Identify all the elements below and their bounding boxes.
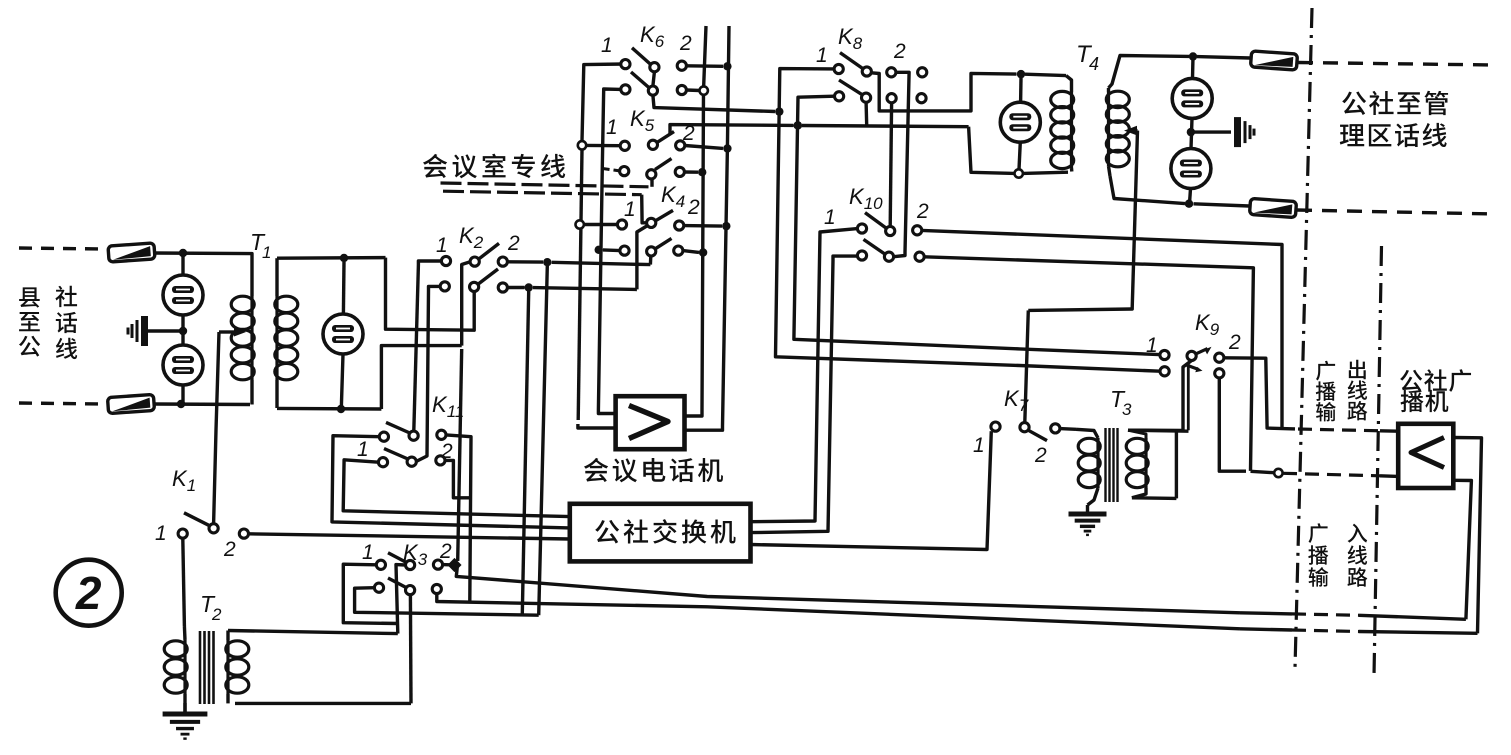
- wire: [1132, 496, 1177, 500]
- label 出线路: [1347, 360, 1367, 421]
- node junction: [177, 400, 185, 408]
- wire: [381, 346, 461, 409]
- transformer T2 core: [200, 631, 214, 704]
- node junction: [723, 62, 731, 70]
- svg-text:1: 1: [816, 44, 828, 67]
- wire: [539, 262, 548, 615]
- node junction: [794, 121, 802, 129]
- node junction: [1274, 469, 1282, 477]
- node junction: [576, 220, 584, 228]
- node junction: [543, 258, 551, 266]
- wire: [1283, 473, 1380, 476]
- label K5: [630, 106, 655, 135]
- ground: [1234, 117, 1254, 147]
- label K7: [1004, 386, 1029, 415]
- wire: [685, 146, 723, 149]
- node junction: [595, 246, 603, 254]
- node junction: [775, 107, 783, 115]
- wire: [249, 534, 570, 539]
- wire: [416, 290, 428, 461]
- svg-text:2: 2: [223, 538, 236, 561]
- node junction: [794, 121, 802, 129]
- wire: [670, 125, 794, 135]
- wire: [153, 251, 250, 255]
- svg-text:2: 2: [75, 567, 102, 619]
- ground: [163, 714, 208, 739]
- wire: [1359, 615, 1466, 619]
- svg-text:1: 1: [824, 206, 836, 229]
- wire: [684, 224, 722, 228]
- wire: [1191, 57, 1195, 79]
- wire: [683, 251, 699, 253]
- wire: [686, 64, 723, 68]
- wire: [1292, 630, 1359, 632]
- switch K11 pole1: [379, 422, 446, 441]
- transformer T2 primary: [164, 626, 187, 712]
- wire: [277, 256, 386, 260]
- wire: [1240, 613, 1292, 614]
- wire: [1297, 210, 1495, 214]
- svg-text:2: 2: [893, 40, 906, 63]
- wire: [794, 96, 1159, 354]
- switch K7: [1020, 423, 1060, 441]
- wire: [653, 95, 775, 111]
- wire: [637, 226, 647, 289]
- svg-text:1: 1: [606, 116, 618, 139]
- node junction: [1017, 70, 1025, 78]
- switch K2 pole2: [440, 269, 507, 292]
- label 广播输 (out): [1316, 361, 1336, 422]
- transformer T1 secondary: [275, 258, 298, 408]
- node junction: [698, 168, 706, 176]
- transformer T3 secondary: [1126, 430, 1188, 498]
- wire: [414, 265, 419, 431]
- label 公社广播机: [1400, 369, 1471, 412]
- label 广播输 (in): [1308, 523, 1328, 587]
- wire: [446, 435, 471, 602]
- wire: [181, 385, 184, 404]
- wire: [1028, 308, 1132, 310]
- node junction: [700, 86, 708, 94]
- wire: [650, 179, 653, 187]
- box commune broadcast unit: [1398, 424, 1453, 488]
- label T4: [1076, 41, 1099, 74]
- wire: [924, 257, 1253, 471]
- wire: [19, 403, 105, 404]
- wire: [1219, 378, 1246, 471]
- label 2: [223, 538, 236, 561]
- arrester E6: [1171, 149, 1211, 189]
- wire: [751, 229, 858, 522]
- svg-text:4: 4: [1089, 54, 1099, 74]
- label 2: [916, 200, 929, 223]
- wire: [1190, 188, 1191, 203]
- wire: [235, 702, 411, 705]
- switch K2 pole1: [441, 243, 507, 266]
- bus line: [685, 26, 730, 430]
- arrester E4: [1000, 102, 1040, 142]
- wire: [341, 354, 343, 409]
- wire: [1380, 429, 1398, 433]
- wire: [751, 256, 858, 532]
- wire: [443, 191, 642, 195]
- wire: [343, 564, 398, 623]
- svg-text:1: 1: [155, 522, 167, 545]
- label 公社交换机: [595, 519, 735, 543]
- node junction: [1187, 128, 1195, 136]
- switch K11 pole2: [378, 449, 445, 467]
- fuse F4: [1249, 198, 1296, 217]
- label 2: [1228, 331, 1241, 354]
- wire: [642, 195, 647, 223]
- wire: [552, 262, 651, 264]
- wire: [1197, 57, 1250, 58]
- label 公社至管理区话线: [1340, 91, 1448, 147]
- transformer T1 tap: [219, 328, 246, 337]
- wire: [1086, 505, 1089, 512]
- wire: [183, 703, 186, 712]
- node junction: [447, 558, 461, 572]
- wire: [653, 72, 655, 86]
- switch K1: [178, 513, 248, 538]
- wire: [1251, 471, 1275, 472]
- node junction: [1185, 200, 1193, 208]
- node junction: [723, 144, 731, 152]
- wire: [1187, 364, 1190, 430]
- label 1: [436, 234, 448, 257]
- label 2: [440, 440, 453, 463]
- label 1: [357, 438, 369, 461]
- label 2: [687, 196, 700, 219]
- label 1: [624, 198, 636, 221]
- node junction: [1015, 169, 1023, 177]
- wire: [418, 261, 441, 265]
- switch K3 pole2: [374, 578, 441, 595]
- wire: [586, 144, 620, 148]
- zone boundary: [1295, 8, 1312, 668]
- label K2: [459, 223, 484, 252]
- label K10: [849, 184, 883, 213]
- node junction: [179, 327, 187, 335]
- wire: [1019, 78, 1023, 103]
- transformer T4 tap: [1124, 126, 1138, 136]
- label T3: [1110, 386, 1132, 419]
- svg-text:1: 1: [262, 243, 271, 262]
- zone boundary: [1374, 246, 1382, 676]
- wire: [1292, 614, 1359, 615]
- wire: [603, 248, 620, 252]
- wire: [355, 588, 539, 616]
- wire: [969, 127, 1015, 174]
- label 1: [973, 434, 985, 457]
- wire: [181, 315, 184, 345]
- arrester E2: [163, 345, 203, 385]
- transformer T1 primary: [231, 254, 254, 405]
- transformer T2 secondary: [226, 631, 249, 704]
- wire: [578, 150, 582, 421]
- label 2: [893, 40, 906, 63]
- svg-text:3: 3: [1122, 400, 1132, 419]
- label K8: [838, 24, 863, 53]
- svg-text:1: 1: [624, 198, 636, 221]
- wire: [409, 595, 413, 704]
- svg-text:2: 2: [1034, 444, 1047, 467]
- wire: [214, 332, 219, 524]
- wire: [1453, 438, 1481, 634]
- wire: [1240, 629, 1292, 630]
- switch K5 pole2: [620, 159, 685, 179]
- wire: [181, 253, 184, 275]
- wire: [386, 258, 475, 331]
- wire: [343, 460, 570, 517]
- label 1: [362, 541, 374, 564]
- wire: [582, 64, 625, 141]
- switch K3 pole1: [376, 553, 442, 570]
- switch K8 pole2: [835, 80, 927, 103]
- node junction: [340, 254, 348, 262]
- wire: [228, 631, 398, 634]
- wire: [890, 103, 891, 227]
- switch K8 pole1: [834, 53, 927, 77]
- svg-text:1: 1: [362, 541, 374, 564]
- arrester E5: [1172, 78, 1212, 118]
- label K9: [1195, 310, 1220, 339]
- wire: [443, 563, 450, 567]
- svg-text:1: 1: [973, 434, 985, 457]
- wire: [871, 73, 1016, 111]
- label K3: [403, 540, 428, 569]
- wire: [584, 223, 618, 226]
- wire: [578, 424, 616, 428]
- fuse F1: [108, 243, 155, 262]
- wire: [1025, 310, 1029, 422]
- wire: [1224, 358, 1295, 429]
- fuse F3: [1250, 51, 1297, 70]
- wire: [922, 230, 1282, 427]
- label 县至公社话线: [19, 286, 77, 359]
- box commune switchboard: [570, 504, 751, 562]
- svg-text:1: 1: [436, 234, 448, 257]
- wire: [1191, 130, 1231, 133]
- wire: [183, 538, 185, 626]
- node junction: [337, 405, 345, 413]
- wire: [1023, 172, 1068, 173]
- wire: [445, 460, 471, 497]
- label 1: [824, 206, 836, 229]
- wire: [802, 126, 969, 127]
- label 2: [682, 122, 695, 145]
- wire: [277, 407, 381, 411]
- wire: [1132, 131, 1137, 308]
- transformer T3 core: [1106, 428, 1118, 502]
- bus line: [685, 26, 707, 416]
- wire: [1359, 632, 1478, 634]
- node junction: [1189, 52, 1197, 60]
- wire: [507, 286, 524, 289]
- label 会议电话机: [584, 458, 723, 482]
- wire: [1453, 480, 1471, 619]
- figure number 2: [56, 560, 122, 626]
- svg-text:2: 2: [507, 232, 520, 255]
- switch K10 pole2: [857, 239, 924, 261]
- svg-text:2: 2: [1228, 331, 1241, 354]
- wire: [1128, 361, 1192, 431]
- switch K9: [1160, 347, 1224, 378]
- label 入线路: [1347, 524, 1367, 587]
- svg-text:2: 2: [916, 200, 929, 223]
- svg-text:1: 1: [1146, 334, 1158, 357]
- wire: [649, 256, 653, 265]
- wire: [864, 102, 868, 125]
- wire: [1019, 142, 1020, 170]
- label 2: [439, 540, 452, 563]
- label K1: [172, 466, 196, 495]
- switch K10 pole1: [857, 213, 921, 236]
- wire: [148, 329, 183, 332]
- wire: [441, 183, 649, 187]
- wire: [437, 594, 1240, 629]
- wire: [19, 248, 107, 249]
- wire: [1194, 204, 1250, 206]
- label 1: [601, 34, 613, 57]
- box conference telephone: [616, 396, 685, 449]
- wire: [598, 89, 621, 414]
- svg-text:1: 1: [357, 438, 369, 461]
- wire: [522, 291, 528, 614]
- wire: [1109, 56, 1190, 89]
- label T2: [200, 591, 222, 624]
- wire: [1110, 176, 1185, 204]
- switch K4 pole1: [617, 210, 683, 230]
- wire: [332, 436, 570, 528]
- wire: [1380, 474, 1398, 478]
- arrester E1: [163, 275, 203, 315]
- wire: [1025, 74, 1066, 75]
- label 2: [1034, 444, 1047, 467]
- wire: [342, 262, 346, 314]
- wire: [603, 169, 620, 171]
- node junction: [525, 283, 533, 291]
- wire: [686, 88, 699, 92]
- label 会议室专线: [423, 154, 565, 179]
- node junction: [179, 249, 187, 257]
- wire: [1298, 429, 1380, 431]
- fuse F2: [107, 394, 154, 413]
- label 1: [816, 44, 828, 67]
- node junction: [699, 248, 707, 256]
- label 1: [155, 522, 167, 545]
- label 2: [507, 232, 520, 255]
- label K11: [432, 392, 464, 421]
- svg-text:1: 1: [601, 34, 613, 57]
- wire: [458, 349, 462, 561]
- label 2: [679, 32, 692, 55]
- switch K6 pole2: [621, 72, 687, 95]
- node junction: [578, 141, 586, 149]
- switch K6 pole1: [621, 48, 687, 72]
- label T1: [250, 229, 271, 262]
- wire: [1298, 63, 1495, 66]
- ground: [128, 316, 148, 346]
- label K6: [640, 22, 665, 51]
- transformer T4 primary: [1051, 76, 1074, 172]
- node junction: [722, 222, 730, 230]
- switch K4 pole2: [620, 238, 683, 256]
- label 1: [606, 116, 618, 139]
- wire: [751, 431, 992, 549]
- label K4: [661, 182, 685, 211]
- transformer T4 secondary: [1106, 88, 1129, 176]
- wire: [533, 288, 637, 290]
- ground: [1069, 514, 1107, 535]
- wire: [507, 260, 543, 264]
- wire: [1191, 118, 1192, 148]
- wire: [684, 170, 698, 174]
- node terminal 1: [991, 422, 1000, 431]
- wire: [153, 402, 250, 406]
- arrester E3: [323, 314, 363, 354]
- wire: [776, 69, 1161, 372]
- wire: [894, 72, 909, 256]
- wire: [456, 565, 1240, 613]
- svg-text:2: 2: [211, 605, 222, 624]
- transformer T3 primary: [1076, 429, 1100, 505]
- svg-text:2: 2: [687, 196, 700, 219]
- switch K5 pole1: [620, 132, 685, 151]
- wire: [396, 565, 406, 634]
- wire: [1060, 427, 1076, 431]
- wire: [429, 286, 441, 290]
- wire: [462, 262, 471, 346]
- label 1: [1146, 334, 1158, 357]
- svg-text:2: 2: [679, 32, 692, 55]
